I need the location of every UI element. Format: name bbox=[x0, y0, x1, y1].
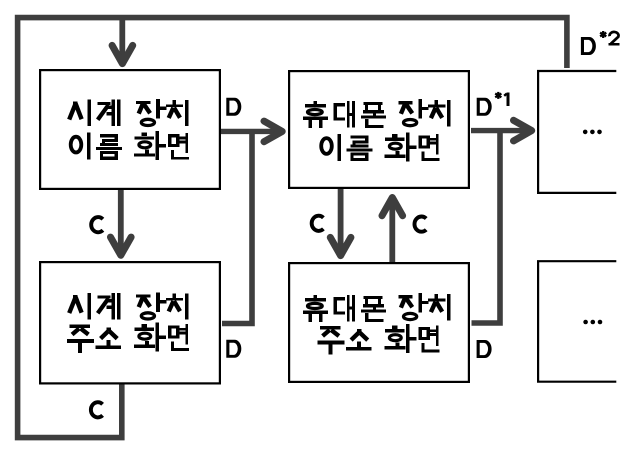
label C (box4 to box3 arrow) bbox=[414, 217, 426, 232]
text: ... (box5) bbox=[583, 130, 602, 135]
wire: box2 right side up to D arrow junction bbox=[222, 131, 252, 323]
wire: outer feedback loop from box2 bottom, down-left-up along left side, across top, down into box5 top bbox=[18, 18, 567, 438]
arrow C: box3 bottom down to box4 top bbox=[330, 189, 351, 256]
label C (box3 to box4 arrow) bbox=[312, 216, 324, 231]
text: 주소 화면 (box2 line2) bbox=[67, 322, 189, 353]
text: 이름 화면 (box1 line2) bbox=[71, 131, 189, 160]
text: 주소 화면 (box4 line2) bbox=[317, 324, 439, 355]
text: 이름 화면 (box3 line2) bbox=[321, 132, 439, 161]
wire D: box1 right to box3 left with arrowhead bbox=[221, 121, 282, 142]
box: 시계 장치 주소 화면 (box2) bbox=[40, 262, 220, 383]
text: 휴대폰 장치 (box3 line1) bbox=[303, 99, 451, 128]
arrow C: box4 top up to box3 bottom bbox=[382, 198, 403, 263]
box: 시계 장치 이름 화면 (box1) bbox=[40, 70, 220, 189]
label D (box1 to box3 transition) bbox=[226, 98, 241, 116]
label C (outer loop bottom) bbox=[91, 402, 103, 417]
label D (box2 to junction) bbox=[226, 340, 241, 358]
box: 휴대폰 장치 이름 화면 (box3) bbox=[289, 71, 469, 188]
label D*1 (box3 to box5 transition) bbox=[477, 92, 510, 116]
wire: box4 right side up to D*1 arrow junction bbox=[472, 131, 501, 323]
arrow: from top loop line down into box1 top bbox=[112, 20, 133, 64]
arrow C: box1 bottom to box2 top bbox=[111, 190, 132, 255]
wire D*1: box3 right to box5 left with arrowhead bbox=[471, 120, 532, 141]
label D*2 (outer loop into box5) bbox=[581, 31, 620, 55]
text: ... (box6) bbox=[583, 320, 602, 325]
box: 휴대폰 장치 주소 화면 (box4) bbox=[289, 263, 469, 382]
text: 시계 장치 (box1 line1) bbox=[69, 99, 188, 126]
label D (box4 to junction) bbox=[477, 340, 492, 358]
text: 휴대폰 장치 (box4 line1) bbox=[303, 293, 451, 322]
box: bottom-right ellipsis box (box6, open right edge) bbox=[538, 261, 616, 382]
text: 시계 장치 (box2 line1) bbox=[69, 292, 188, 319]
label C (box1 to box2 arrow) bbox=[91, 217, 103, 232]
box: top-right ellipsis box (box5, open right edge) bbox=[538, 71, 616, 193]
